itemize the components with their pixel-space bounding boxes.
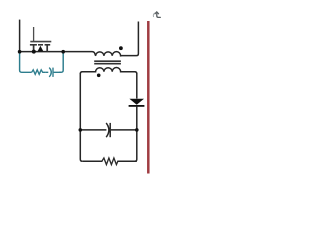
transformer T1 primary winding (96, 22, 139, 56)
transistor Q1 (MOSFET, horizontal) (30, 27, 51, 52)
body diode of Q1 (38, 46, 44, 52)
capacitor C1 output (curved + straight plate) (106, 123, 109, 137)
wire bottom branch left (82, 160, 102, 162)
wire capacitor branch left (80, 129, 106, 131)
wire secondary left rail (80, 73, 82, 161)
transformer T1 secondary winding (80, 68, 137, 74)
transformer core lines (94, 61, 121, 64)
node dot cap left (79, 128, 83, 132)
polarity dot secondary (97, 74, 101, 78)
source stub (46, 45, 48, 51)
wire secondary right rail upper (136, 73, 138, 99)
wire bottom branch right (117, 160, 137, 162)
channel segment body (38, 44, 43, 46)
node dot snubber right junction (61, 50, 65, 54)
wire capacitor branch right (111, 129, 137, 131)
resistor R1 load (zigzag) (102, 158, 118, 165)
wire snubber right vertical (teal) (59, 52, 63, 73)
node dot junction input/main wire (18, 50, 22, 54)
wire main horizontal (drain-source rail to transformer) (20, 52, 96, 56)
gate lead (33, 27, 35, 41)
wire snubber loop (teal) (20, 52, 32, 73)
node dot drain junction (32, 50, 36, 54)
node dot cap right (135, 128, 139, 132)
wire input vertical left (19, 20, 21, 52)
resistor R snubber (teal zigzag) (32, 70, 46, 75)
diode D1 output (129, 99, 144, 105)
icon gray curved arrow (top right) (153, 12, 160, 18)
channel segment source (45, 44, 51, 46)
wire secondary right rail lower (135, 106, 137, 161)
gate bar (30, 41, 51, 43)
polarity dot primary (119, 46, 123, 50)
drain stub (33, 45, 35, 51)
channel segment drain (30, 44, 37, 46)
capacitor C snubber (teal, curved + straight plate) (49, 68, 51, 77)
red probe line (147, 21, 150, 174)
